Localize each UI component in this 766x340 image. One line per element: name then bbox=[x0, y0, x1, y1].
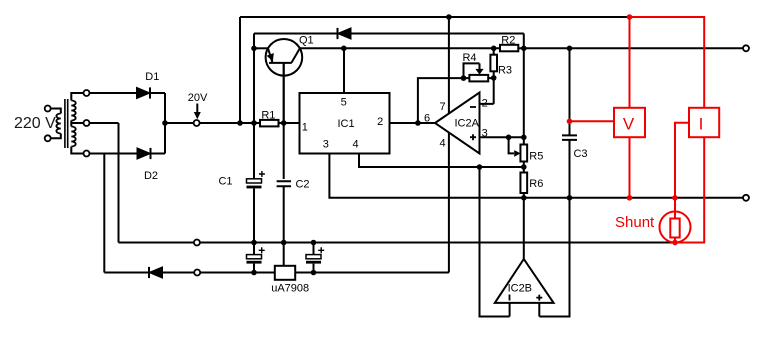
svg-text:uA7908: uA7908 bbox=[271, 283, 309, 295]
svg-text:IC2A: IC2A bbox=[454, 118, 479, 130]
svg-text:R2: R2 bbox=[501, 34, 515, 46]
svg-text:220 V: 220 V bbox=[14, 115, 56, 132]
svg-text:R3: R3 bbox=[498, 65, 512, 77]
svg-text:2: 2 bbox=[377, 116, 383, 128]
svg-text:4: 4 bbox=[440, 137, 446, 149]
svg-text:V: V bbox=[623, 114, 635, 133]
svg-text:Q1: Q1 bbox=[299, 35, 314, 47]
svg-text:R1: R1 bbox=[261, 109, 275, 121]
svg-text:I: I bbox=[699, 114, 704, 133]
svg-text:1: 1 bbox=[302, 121, 308, 133]
svg-text:2: 2 bbox=[482, 97, 488, 109]
svg-text:3: 3 bbox=[482, 128, 488, 140]
svg-text:6: 6 bbox=[424, 112, 430, 124]
svg-text:IC2B: IC2B bbox=[508, 283, 532, 295]
svg-text:5: 5 bbox=[341, 97, 347, 109]
svg-text:D1: D1 bbox=[145, 71, 159, 83]
svg-text:R5: R5 bbox=[529, 151, 543, 163]
svg-text:D2: D2 bbox=[144, 170, 158, 182]
svg-text:3: 3 bbox=[323, 139, 329, 151]
svg-text:7: 7 bbox=[440, 101, 446, 113]
svg-text:C2: C2 bbox=[295, 179, 309, 191]
svg-text:Shunt: Shunt bbox=[615, 214, 655, 231]
svg-text:20V: 20V bbox=[188, 92, 208, 104]
svg-text:C3: C3 bbox=[573, 148, 587, 160]
svg-text:4: 4 bbox=[353, 139, 359, 151]
svg-text:R6: R6 bbox=[529, 178, 543, 190]
svg-text:C1: C1 bbox=[218, 175, 232, 187]
svg-text:R4: R4 bbox=[462, 52, 476, 64]
svg-text:IC1: IC1 bbox=[337, 118, 354, 130]
